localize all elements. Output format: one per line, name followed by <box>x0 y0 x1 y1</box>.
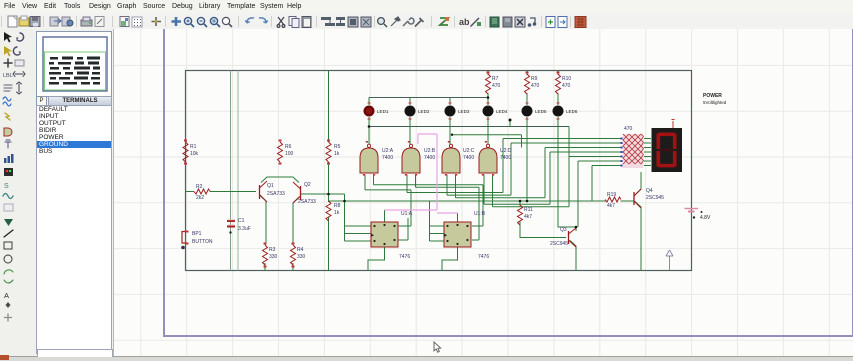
resistor R2 2k2 <box>194 184 210 201</box>
capacitor C1 3.3uF <box>227 221 235 227</box>
svg-text:R8: R8 <box>334 203 341 209</box>
svg-text:LED6: LED6 <box>566 109 578 114</box>
bottom strip <box>0 356 853 361</box>
resistor R5 1k <box>326 142 341 162</box>
svg-text:LED3: LED3 <box>458 109 470 114</box>
wire rail A <box>329 200 635 202</box>
wrench <box>403 18 414 26</box>
resistor R3 330 <box>263 245 278 265</box>
pan plus <box>172 17 182 26</box>
hammer <box>415 18 424 27</box>
LED4 <box>483 103 508 119</box>
transistor Q1 2SA733 <box>260 181 268 202</box>
cut <box>277 17 285 27</box>
wire cross link B <box>452 135 522 148</box>
book green <box>490 17 499 27</box>
svg-text:7400: 7400 <box>500 155 511 161</box>
svg-text:Q1: Q1 <box>267 183 274 189</box>
svg-text:2SA733: 2SA733 <box>267 191 285 197</box>
wire R5/R8 vertical <box>328 71 330 271</box>
wire gate1 input stubs <box>365 175 374 190</box>
wire C1 left vertical <box>230 71 232 271</box>
wire FF1 right pins <box>398 190 411 240</box>
svg-text:4.8V: 4.8V <box>700 215 711 221</box>
LED6 <box>553 103 578 119</box>
svg-text:470: 470 <box>624 126 633 132</box>
wire gate2 input stubs <box>407 175 416 193</box>
svg-text:C1: C1 <box>238 218 245 224</box>
doc plus <box>546 17 555 28</box>
wire Q2 collector down to R4 <box>293 197 299 271</box>
NAND gate U2:C <box>442 141 460 176</box>
wire display bundle verticals <box>503 139 592 228</box>
svg-text:R4: R4 <box>297 247 304 253</box>
wire LED top bus <box>369 97 488 99</box>
svg-text:Q3: Q3 <box>560 227 567 233</box>
transistor Q2 2SA733 <box>293 182 301 203</box>
svg-text:R2: R2 <box>196 184 203 190</box>
svg-text:R5: R5 <box>334 144 341 150</box>
svg-text:7476: 7476 <box>478 254 489 260</box>
open <box>19 16 29 26</box>
NAND gate U2:A <box>360 141 378 176</box>
resistor R1 10k <box>183 142 199 162</box>
svg-text:LED5: LED5 <box>535 109 547 114</box>
svg-text:7400: 7400 <box>463 155 474 161</box>
wire cross link A <box>369 126 569 128</box>
pen Z <box>471 18 482 27</box>
push button BP1 <box>182 232 187 244</box>
svg-text:LED4: LED4 <box>496 109 508 114</box>
power terminal arrow <box>666 250 673 270</box>
svg-text:10k: 10k <box>190 151 199 157</box>
magnifier 1 <box>184 17 194 27</box>
svg-text:U2:B: U2:B <box>424 148 436 154</box>
svg-text:1k: 1k <box>334 210 340 216</box>
flip-flop U1:B 7476 <box>444 211 489 260</box>
wire R9 stubs <box>526 71 528 106</box>
wire R7 stubs <box>487 71 489 98</box>
wire node to FF1 inputs vertical <box>344 194 346 241</box>
wire LED1-4 bottoms to gate outputs <box>369 117 488 144</box>
svg-text:3.3uF: 3.3uF <box>238 226 251 232</box>
svg-text:4k7: 4k7 <box>607 203 615 209</box>
block move <box>336 17 345 26</box>
wire Q3 emitter to ground rail <box>570 241 576 271</box>
resistor R10 470 <box>556 74 572 94</box>
undo <box>245 18 254 23</box>
magnifier 2 <box>197 17 207 27</box>
NAND gate U2:B <box>402 141 420 176</box>
svg-text:BUTTON: BUTTON <box>192 239 213 245</box>
X table <box>515 17 525 27</box>
flip-flop U1:A 7476 <box>371 211 413 260</box>
wire display bundle horizontals <box>503 139 622 166</box>
pin marks red <box>184 72 560 268</box>
svg-text:100: 100 <box>285 151 294 157</box>
wire R2 to Q1 base <box>186 191 257 193</box>
svg-text:7400: 7400 <box>382 155 393 161</box>
svg-text:LED1: LED1 <box>377 109 389 114</box>
wire pink net <box>385 134 458 213</box>
doc arrow <box>558 17 567 28</box>
svg-text:U1:A: U1:A <box>401 211 413 217</box>
svg-text:R3: R3 <box>269 247 276 253</box>
svg-text:BP1: BP1 <box>192 231 202 237</box>
svg-text:Q2: Q2 <box>304 182 311 188</box>
svg-text:R10: R10 <box>562 76 571 82</box>
magnifier 4 <box>222 17 232 27</box>
LED5 <box>522 103 547 119</box>
export <box>62 17 73 26</box>
template Z green <box>440 17 449 25</box>
paste <box>302 17 311 28</box>
svg-text:A: A <box>4 291 9 300</box>
svg-text:7400: 7400 <box>424 155 435 161</box>
svg-text:470: 470 <box>562 83 571 89</box>
svg-text:2SA733: 2SA733 <box>298 199 316 205</box>
svg-text:LED2: LED2 <box>418 109 430 114</box>
wire RN to display <box>644 139 651 166</box>
wire gate3 input stubs <box>447 175 456 198</box>
circuit outer box <box>186 71 692 271</box>
wire FF2 top pin <box>457 213 459 222</box>
resistor R4 330 <box>291 245 306 265</box>
svg-text:1k: 1k <box>334 151 340 157</box>
toolbar <box>0 14 853 30</box>
redo <box>259 18 268 23</box>
wire Q2 base to R5 node <box>301 193 345 195</box>
save <box>30 17 40 27</box>
svg-text:S: S <box>4 183 9 190</box>
resistor R7 470 <box>486 74 501 94</box>
wire Q4 emitter down <box>635 202 641 271</box>
origin cross <box>152 17 162 26</box>
LED1 (lit red) <box>364 103 389 119</box>
battery 4.8V <box>685 209 711 222</box>
LED3 <box>445 103 470 119</box>
sheet border <box>164 29 853 336</box>
svg-text:U1:B: U1:B <box>474 211 486 217</box>
svg-text:5Voltlighted: 5Voltlighted <box>703 100 727 105</box>
svg-text:ab: ab <box>459 17 470 27</box>
wire gate4 input stubs <box>484 175 493 207</box>
svg-text:R1: R1 <box>190 144 197 150</box>
resistor R11 4k7 <box>518 205 534 225</box>
svg-text:470: 470 <box>531 83 540 89</box>
resistor network 470 <box>621 126 644 168</box>
svg-text:Q4: Q4 <box>646 188 653 194</box>
block delete <box>361 17 371 27</box>
svg-text:330: 330 <box>297 254 306 260</box>
wire BP1 node <box>185 224 187 226</box>
resistor R9 470 <box>525 74 540 94</box>
wire Q4 collector up <box>635 172 641 195</box>
ares red <box>575 17 586 28</box>
junction dots <box>327 96 577 228</box>
svg-text:U2:C: U2:C <box>463 148 475 154</box>
svg-text:4k7: 4k7 <box>524 214 532 220</box>
mouse cursor <box>434 342 441 352</box>
svg-text:R6: R6 <box>285 144 292 150</box>
transistor Q4 2SC945 <box>634 189 641 208</box>
schematic canvas <box>113 29 853 356</box>
svg-text:R9: R9 <box>531 76 538 82</box>
wire LED5 down <box>526 117 528 201</box>
magnifier 3 <box>210 17 220 27</box>
svg-text:R7: R7 <box>492 76 499 82</box>
mark <box>95 17 104 27</box>
wire R10 stubs <box>557 71 559 106</box>
wire FF2 bottom L <box>442 247 458 271</box>
wire C1 right vertical <box>237 71 239 271</box>
wire gates-FF bundle horizontals <box>365 185 569 207</box>
letters ab <box>459 17 470 27</box>
transistor Q3 2SC945 <box>569 228 577 247</box>
mag edit <box>378 18 387 27</box>
svg-text:U2:A: U2:A <box>382 148 394 154</box>
resistor R19 4k7 <box>605 192 621 209</box>
svg-text:POWER: POWER <box>703 93 722 99</box>
pin <box>391 17 400 26</box>
new <box>8 16 17 27</box>
svg-text:U2:D: U2:D <box>500 148 512 154</box>
NAND gate U2:D <box>479 141 497 176</box>
left icon sidebar <box>0 29 35 360</box>
block rotate <box>348 17 358 27</box>
menu bar <box>0 0 853 14</box>
book gray <box>503 17 512 27</box>
svg-text:R19: R19 <box>607 192 616 198</box>
wire LED6 down to Q3 collector <box>558 117 576 231</box>
svg-text:470: 470 <box>492 83 501 89</box>
sheet green <box>120 17 129 27</box>
wire Q1 Q2 emitter bridge <box>261 177 299 183</box>
import <box>50 17 61 26</box>
wire Q1 collector down to R3 <box>260 195 266 271</box>
svg-text:2SC945: 2SC945 <box>646 195 664 201</box>
7-segment display <box>652 120 683 173</box>
music note <box>528 18 537 27</box>
wire FF2 inputs vertical <box>429 201 431 241</box>
svg-text:2SC945: 2SC945 <box>550 241 568 247</box>
wire FF2 input stubs <box>430 226 445 241</box>
svg-text:R11: R11 <box>524 207 533 213</box>
resistor R6 100 <box>278 142 294 162</box>
object selector panel <box>34 29 113 360</box>
wire FF1 top pin <box>384 210 386 222</box>
wire FF1 bottom L <box>368 247 385 271</box>
wire R11 connections <box>520 201 566 238</box>
print <box>81 17 92 26</box>
resistor R8 1k <box>326 201 341 221</box>
copy <box>289 17 299 28</box>
svg-text:2k2: 2k2 <box>196 195 204 201</box>
grid dots <box>132 17 142 27</box>
svg-text:7476: 7476 <box>399 254 410 260</box>
svg-text:330: 330 <box>269 254 278 260</box>
block copy <box>321 17 335 26</box>
svg-text:LBL: LBL <box>3 73 13 79</box>
wire FF1 input stubs <box>345 226 372 241</box>
wire FF2 right pins <box>472 185 483 240</box>
LED2 <box>405 103 430 119</box>
